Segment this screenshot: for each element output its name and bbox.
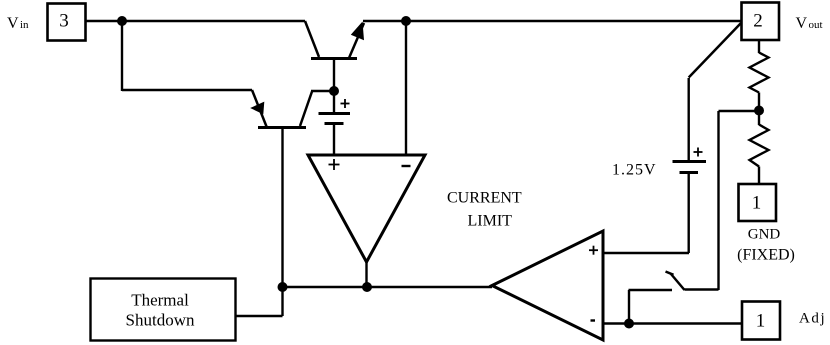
- svg-text:1: 1: [752, 193, 762, 214]
- svg-text:Adj: Adj: [799, 311, 826, 327]
- svg-text:CURRENT: CURRENT: [447, 190, 522, 207]
- svg-text:V: V: [796, 15, 808, 32]
- svg-text:out: out: [809, 19, 823, 31]
- svg-text:3: 3: [59, 11, 69, 32]
- svg-text:V: V: [7, 15, 19, 32]
- svg-text:(FIXED): (FIXED): [737, 247, 795, 264]
- svg-text:Shutdown: Shutdown: [126, 311, 195, 330]
- svg-text:GND: GND: [748, 227, 781, 243]
- svg-text:1.25V: 1.25V: [612, 162, 657, 179]
- svg-text:2: 2: [753, 11, 763, 32]
- svg-text:Thermal: Thermal: [131, 291, 189, 310]
- svg-text:LIMIT: LIMIT: [468, 213, 513, 230]
- svg-text:1: 1: [756, 311, 766, 332]
- svg-text:in: in: [20, 19, 29, 31]
